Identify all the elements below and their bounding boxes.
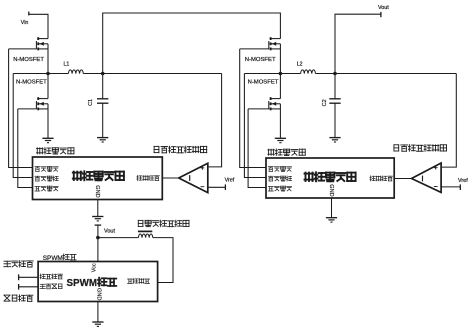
terminal Vref right (459, 184, 461, 190)
wire Vout terminal to node (97, 225, 99, 238)
wire switch node (13, 73, 68, 75)
wire C2 node to Vout (335, 14, 381, 73)
svg-text:C1: C1 (88, 99, 94, 106)
svg-text:N-MOSFET: N-MOSFET (245, 57, 276, 63)
label gate-driver title (left) (37, 148, 74, 154)
transistor Q1 high-side N-MOSFET (38, 38, 48, 40)
wire Q3 gate to driver pin 1 (240, 49, 266, 168)
wire Q2 gate to driver pin 3 (18, 109, 33, 188)
terminal carrier input (18, 284, 20, 290)
ground U4 (326, 217, 337, 219)
svg-text:GND: GND (95, 288, 101, 300)
capacitor C2 (334, 74, 336, 99)
wire L2 to C2 node (316, 73, 336, 75)
ground C2 (329, 137, 340, 139)
node L2/C2 junction (333, 72, 337, 76)
label U4 name 栅极驱动器 (305, 172, 356, 181)
gate driver U2 box (33, 157, 163, 200)
wire node to Q2 drain (47, 74, 49, 99)
wire Q4 source to ground (279, 109, 281, 138)
label pin high-side source right (268, 176, 291, 181)
svg-text:C2: C2 (322, 99, 328, 106)
svg-text:SPWM: SPWM (67, 278, 97, 289)
svg-text:N-MOSFET: N-MOSFET (16, 79, 47, 85)
ground Q2 source (42, 137, 53, 139)
wire L1 to C1 node (83, 73, 102, 75)
wire Q2 source to ground (47, 109, 49, 138)
ground U5 (92, 321, 103, 323)
label pin control signal (right) (370, 176, 393, 181)
wire source sense right (244, 74, 266, 178)
label pin high-side drive (35, 167, 58, 172)
ground C1 (97, 137, 108, 139)
svg-text:N-MOSFET: N-MOSFET (13, 57, 44, 63)
wire U3 output to U4 (394, 178, 411, 180)
label pin low-side drive (35, 186, 58, 191)
wire Vref to U1 minus (208, 186, 226, 188)
transistor Q4 low-side N-MOSFET (271, 98, 281, 100)
wire node to right hysteresis input (335, 73, 456, 75)
wire U2 GND to ground (97, 200, 99, 217)
wire boost link top rail (103, 13, 281, 74)
wire Vin to Q1 drain (29, 14, 48, 38)
label pin triangular carrier (40, 284, 62, 289)
SPWM module U5 box (38, 262, 158, 302)
node right switch junction (279, 72, 283, 76)
wire Q4 gate to driver pin 3 (248, 109, 266, 188)
svg-text:Vref: Vref (458, 178, 468, 184)
inductor L1 (68, 70, 83, 74)
svg-text:Vcc: Vcc (92, 263, 98, 272)
wire coil to SPWM low-side output (153, 238, 173, 283)
ground U2 (92, 216, 103, 218)
label pin modulation signal (40, 274, 63, 279)
core bar of excitation coil (138, 230, 152, 232)
wire U5 GND to ground (97, 302, 99, 322)
wire feedback down to comparator U3 (441, 74, 456, 168)
gate driver U4 box (266, 158, 394, 198)
label pin high-side drive right (268, 167, 291, 172)
wire feedback down to comparator U1 (208, 74, 222, 167)
wire switch node right (244, 73, 300, 75)
wire Q1 source to node (47, 49, 49, 74)
terminal Vref left (224, 184, 226, 190)
wire Q3 source to node (279, 49, 281, 74)
op-amp U3 comparator (412, 163, 442, 192)
svg-text:Vout: Vout (104, 228, 115, 234)
inductor excitation coil (138, 234, 152, 238)
wire U4 GND to ground (331, 198, 333, 217)
capacitor C1 (102, 74, 104, 99)
node switch-node junction (46, 72, 50, 76)
wire node to hysteresis input (103, 73, 222, 75)
node coil/Vcc junction (96, 236, 100, 240)
label carrier signal (4, 295, 33, 301)
wire U1 output to U2 (162, 177, 178, 179)
label pin high-side source (35, 176, 58, 181)
wire source sense to driver pin 2 (13, 74, 32, 178)
op-amp U1 comparator (179, 163, 208, 192)
wire node to Q4 drain (279, 74, 281, 99)
terminal Vin (28, 12, 30, 16)
ground Q4 source (275, 137, 286, 139)
terminal Vout top (380, 12, 382, 17)
node L1/C1 junction (101, 72, 105, 76)
svg-text:GND: GND (328, 184, 334, 196)
svg-text:L1: L1 (64, 62, 70, 68)
transistor Q3 high-side N-MOSFET (271, 38, 281, 40)
svg-text:Vout: Vout (378, 5, 389, 11)
terminal Vout bottom (95, 224, 102, 226)
wire sine input (19, 276, 38, 278)
label electromagnetic excitation coil (138, 220, 189, 226)
wire node to coil (98, 237, 138, 239)
wire carrier input (19, 286, 38, 288)
wire node to SPWM Vcc (97, 238, 99, 262)
svg-text:Vin: Vin (21, 20, 29, 26)
label U2 name 栅极驱动器 (73, 171, 124, 180)
label sine signal (4, 261, 33, 267)
wire Vref to U3 minus (441, 186, 460, 188)
svg-text:L2: L2 (297, 62, 303, 68)
wire Q1 gate to driver pin 1 (9, 49, 33, 168)
label gate-driver title (right) (268, 149, 305, 155)
transistor Q2 low-side N-MOSFET (38, 98, 48, 100)
svg-text:GND: GND (94, 185, 100, 197)
inductor L2 (301, 70, 316, 74)
label voltage hysteresis controller (left) (154, 146, 207, 153)
label pin low-side output (127, 278, 149, 283)
svg-text:Vref: Vref (225, 178, 235, 184)
svg-text:N-MOSFET: N-MOSFET (248, 79, 279, 85)
svg-text:SPWM: SPWM (43, 255, 63, 262)
label pin control signal (left) (137, 175, 160, 180)
label pin low-side drive right (268, 186, 291, 191)
label voltage hysteresis controller (right) (394, 145, 447, 152)
terminal sine input (18, 274, 20, 280)
